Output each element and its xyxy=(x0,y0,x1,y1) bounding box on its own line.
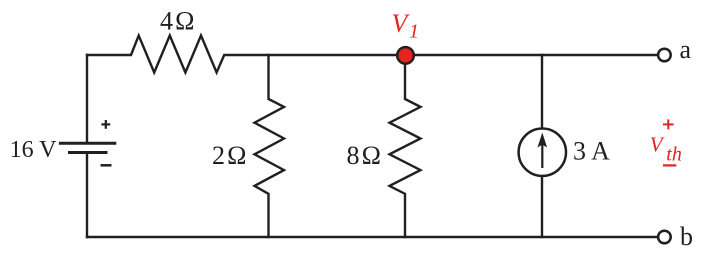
svg-text:1: 1 xyxy=(409,21,419,43)
battery plus sign xyxy=(101,120,110,129)
svg-text:th: th xyxy=(666,144,682,166)
wire: left vertical top segment xyxy=(86,55,88,143)
svg-text:V: V xyxy=(650,133,665,157)
svg-text:3 A: 3 A xyxy=(573,137,610,166)
svg-text:V: V xyxy=(392,9,411,38)
svg-text:4 Ω: 4 Ω xyxy=(160,7,195,36)
svg-text:8 Ω: 8 Ω xyxy=(347,141,382,170)
wire: bottom horizontal xyxy=(87,236,658,238)
wire: left vertical bottom segment xyxy=(86,153,88,238)
resistor 8ohm with leads xyxy=(390,55,421,237)
svg-text:a: a xyxy=(680,35,692,64)
wire: current source top lead xyxy=(541,55,543,127)
svg-text:b: b xyxy=(680,222,693,251)
resistor 2ohm with leads xyxy=(255,55,285,237)
battery minus sign xyxy=(101,164,112,167)
battery 16V top plate xyxy=(60,142,114,145)
label Vth plus sign red xyxy=(663,119,674,129)
current source 3A circle xyxy=(519,129,566,176)
terminal a circle xyxy=(658,49,671,62)
svg-text:2 Ω: 2 Ω xyxy=(212,141,247,170)
current source arrow xyxy=(538,133,548,169)
label Vth minus sign red xyxy=(663,164,676,166)
wire: current source bottom lead xyxy=(541,177,543,237)
battery 16V bottom plate xyxy=(70,151,107,154)
terminal b circle xyxy=(658,231,671,244)
svg-text:16 V: 16 V xyxy=(10,137,58,163)
resistor 4ohm with top wire xyxy=(87,36,658,73)
node V1 junction dot xyxy=(397,47,414,64)
